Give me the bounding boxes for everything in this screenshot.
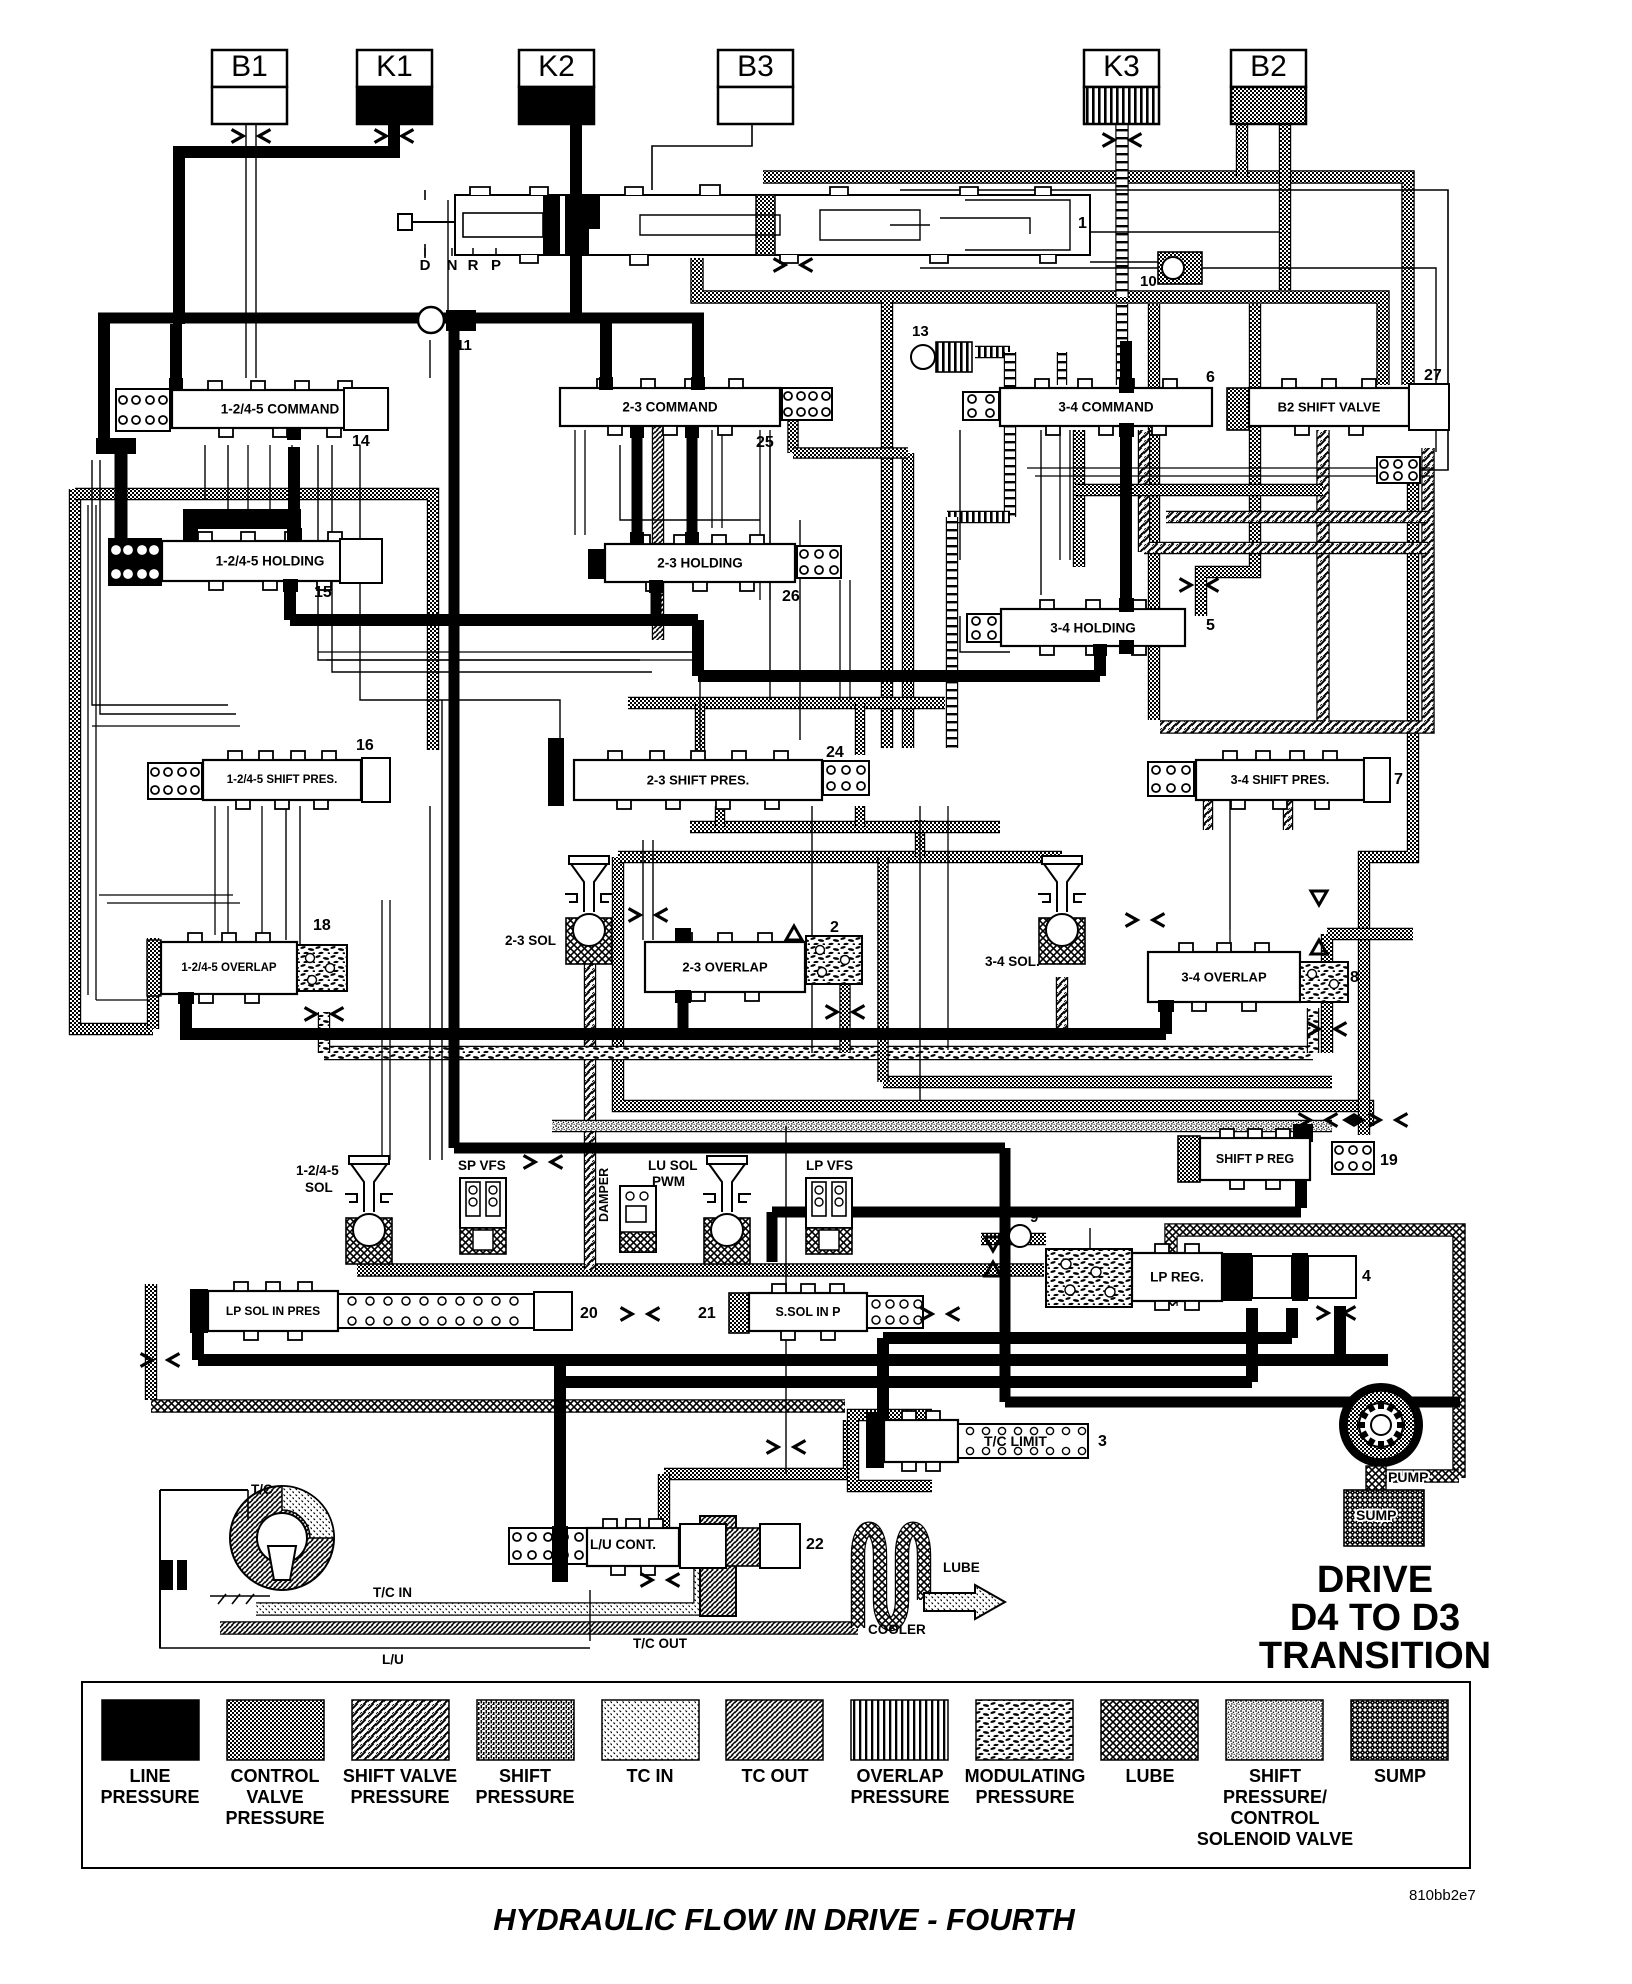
line: shift p reg top port block	[1293, 1124, 1313, 1142]
wire: drop above command	[429, 340, 431, 378]
line: left vertical to H1	[173, 152, 185, 324]
pipe: T/C limit enclosure	[853, 1415, 932, 1486]
pipe: overlap pipe from ball 13	[975, 346, 1010, 358]
port block: 3-4 holding bottom	[1093, 644, 1107, 656]
line: main center vertical	[449, 324, 460, 1148]
svg-text:3-4 SHIFT PRES.: 3-4 SHIFT PRES.	[1231, 773, 1330, 787]
line: bus3 to pump	[1005, 1397, 1460, 1408]
wire: drop to 2-3 overlap	[643, 840, 653, 940]
wire: sol drop A	[429, 806, 431, 1160]
valve 4 right sections	[1222, 1253, 1252, 1301]
wire: drop below shift pres b	[227, 806, 229, 950]
svg-text:26: 26	[782, 588, 800, 605]
svg-text:LP SOL IN PRES: LP SOL IN PRES	[226, 1304, 320, 1318]
line: bus y1338 riser to LP reg	[1286, 1308, 1298, 1338]
line: TH-A west segment	[290, 614, 698, 626]
one-way arrows near valve 9	[985, 1237, 1001, 1276]
pipe: riser y857 to y1082	[877, 857, 888, 1082]
wire: below 2-3 command A	[620, 445, 760, 520]
restrictor near valve 19 c	[1369, 1114, 1408, 1127]
port block: 3-4 command slug	[1119, 378, 1134, 393]
pipe: T/C out riser block at valve 22	[700, 1516, 736, 1616]
svg-text:B1: B1	[231, 50, 268, 83]
clutch B1 box	[212, 50, 287, 124]
line: drop to 1-2/4-5 holding spring box	[115, 452, 128, 545]
line: branch to 2-3 command top-left	[600, 318, 612, 388]
pipe: control riser 2-3 sol to band y1106	[618, 857, 1368, 1126]
svg-text:3-4 OVERLAP: 3-4 OVERLAP	[1181, 970, 1267, 985]
restrictor above 2-3 overlap	[629, 909, 668, 922]
valve 2 spring box (modulating)	[806, 936, 862, 984]
wire: command drop 1	[204, 445, 206, 500]
svg-text:PUMP: PUMP	[1388, 1469, 1428, 1485]
pipe: hatch riser below 2-3 command	[652, 425, 664, 640]
valve 22 spring box	[509, 1528, 587, 1564]
legend swatch line pressure	[100, 1700, 199, 1807]
line: cap under left drop	[96, 438, 136, 454]
svg-text:L/U CONT.: L/U CONT.	[590, 1537, 656, 1552]
svg-text:CONTROL: CONTROL	[1231, 1808, 1320, 1828]
svg-text:18: 18	[313, 917, 331, 934]
valve 21 orifice section	[867, 1296, 923, 1328]
clutch K1 box	[357, 50, 432, 124]
line: TH-A up to 3-4 holding	[1094, 646, 1106, 676]
svg-text:15: 15	[314, 584, 332, 601]
wire: B1 stem double line	[246, 124, 256, 378]
pipe: B2 shift valve right checker loop	[1323, 430, 1428, 727]
one-way arrow above 2-3 overlap spring	[786, 926, 802, 940]
svg-text:SHIFT: SHIFT	[499, 1766, 551, 1786]
valve 2 2-3 overlap	[645, 933, 805, 1001]
svg-text:K3: K3	[1103, 50, 1140, 83]
line: left drop to cap	[98, 318, 110, 441]
legend swatch lube	[1101, 1700, 1198, 1786]
wire: thin pair to 1-2/4-5 sol	[382, 900, 390, 1160]
line: K1 stem	[388, 124, 400, 158]
one-way arrows right of 3-4 overlap	[1311, 891, 1327, 954]
wire: shift pres to overlap A	[285, 800, 287, 940]
svg-text:10: 10	[1140, 273, 1157, 290]
restrictor above 3-4 overlap	[1126, 914, 1165, 927]
svg-text:SUMP: SUMP	[1356, 1507, 1396, 1523]
solenoid 2-3 SOL	[565, 856, 613, 964]
pipe: 2-3 command spring drain stub	[787, 420, 798, 453]
svg-text:PRESSURE: PRESSURE	[100, 1787, 199, 1807]
pipe: stub below 2-3 shift pres b	[855, 806, 865, 827]
pipe: control riser to 2-3 shift pres (right)	[902, 453, 914, 748]
legend swatch shift valve pressure	[343, 1700, 457, 1807]
line: west line drop to sol band	[767, 1212, 778, 1262]
wire: left branch y895	[99, 894, 233, 896]
line:none	[691, 320, 693, 388]
DRIVE D4 TO D3 TRANSITION heading	[1259, 1559, 1491, 1677]
svg-text:SUMP: SUMP	[1374, 1766, 1426, 1786]
pipe: pump enclosure bottom	[1380, 1469, 1459, 1482]
clutch K2 box	[519, 50, 594, 124]
legend swatch tc out	[726, 1700, 823, 1786]
line: LP reg right drop	[1334, 1306, 1346, 1362]
svg-text:1: 1	[1078, 215, 1087, 232]
restrictor below 2-3 overlap	[826, 1006, 865, 1019]
pipe: modulating band left riser	[318, 1012, 330, 1053]
svg-text:SHIFT VALVE: SHIFT VALVE	[343, 1766, 457, 1786]
svg-text:4: 4	[1362, 1268, 1371, 1285]
pump to sump link	[1366, 1466, 1386, 1492]
wire: command drop 2	[227, 445, 229, 520]
svg-text:PRESSURE: PRESSURE	[475, 1787, 574, 1807]
svg-text:SOL: SOL	[305, 1180, 333, 1195]
wire: below 2-3 shift pres	[811, 806, 813, 1053]
svg-text:2-3 HOLDING: 2-3 HOLDING	[657, 556, 743, 571]
legend swatch shift pressure	[475, 1700, 574, 1807]
restrictor at L/U cont	[641, 1574, 680, 1587]
svg-text:T/C IN: T/C IN	[373, 1585, 412, 1600]
svg-text:SP VFS: SP VFS	[458, 1158, 506, 1173]
valve 3 T/C LIMIT	[884, 1411, 958, 1471]
manual valve lever	[398, 190, 454, 258]
svg-text:3-4 SOL.: 3-4 SOL.	[985, 954, 1040, 969]
spring retainer right of B2 shift valve	[1377, 457, 1420, 483]
line: command bottom to holding bar	[288, 447, 300, 515]
svg-text:P: P	[491, 257, 501, 274]
pipe: 3-4 sol drain	[1056, 977, 1068, 1034]
pipe: overlap drop to 2-3 shift pres	[946, 517, 958, 748]
svg-text:2: 2	[830, 919, 839, 936]
solenoid 3-4 SOL	[1038, 856, 1086, 964]
valve 18 1-2/4-5 overlap	[147, 940, 161, 996]
manual selector valve 1	[455, 185, 1090, 265]
wire: left branch y726	[92, 725, 240, 727]
svg-text:L/U: L/U	[382, 1652, 404, 1667]
clutch B2 box	[1231, 50, 1306, 124]
wire: drop below shift pres a	[214, 806, 216, 935]
svg-text:810bb2e7: 810bb2e7	[1409, 1887, 1476, 1904]
line: TB1 right riser to 3-4 overlap	[1160, 1004, 1172, 1034]
svg-text:LP REG.: LP REG.	[1150, 1270, 1204, 1285]
svg-text:LU SOL: LU SOL	[648, 1158, 698, 1173]
svg-text:1-2/4-5 SHIFT PRES.: 1-2/4-5 SHIFT PRES.	[227, 774, 338, 786]
port block: K2 tee at manual valve	[565, 195, 589, 255]
svg-text:T/C LIMIT: T/C LIMIT	[984, 1433, 1047, 1449]
wire: thin drop from manual valve lever area	[447, 200, 449, 310]
line: drop to bus3	[1000, 1148, 1011, 1402]
svg-text:PRESSURE: PRESSURE	[225, 1808, 324, 1828]
wire: drops 2-3 command c	[760, 430, 770, 600]
wire: drops right of 2-3 holding	[840, 580, 850, 700]
pipe: stub to band y857	[915, 820, 925, 857]
legend swatch overlap pressure	[850, 1700, 949, 1807]
legend swatch modulating pressure	[965, 1700, 1086, 1807]
svg-text:PRESSURE: PRESSURE	[850, 1787, 949, 1807]
svg-text:VALVE: VALVE	[246, 1787, 303, 1807]
wire: left branch y903	[107, 902, 240, 904]
restrictor pair near valve 19 a	[1299, 1114, 1338, 1127]
wire: L/U up to valve	[589, 1590, 591, 1641]
wire: below 2-3 command B	[769, 445, 771, 700]
svg-text:20: 20	[580, 1305, 598, 1322]
wire: thin loop right of manual valve	[900, 190, 1448, 470]
line: drop to L/U control	[554, 1360, 566, 1545]
svg-text:9: 9	[1030, 1209, 1038, 1226]
pipe: left tall control loop	[75, 489, 153, 1029]
wire: below 2-3 shift pres B	[919, 806, 921, 1100]
line: shift p reg west line	[772, 1207, 1301, 1218]
pipe: overlap riser right of 3-4 command	[1004, 352, 1016, 517]
line: T/C limit cap riser	[877, 1338, 889, 1420]
svg-text:24: 24	[826, 744, 844, 761]
svg-text:3: 3	[1098, 1433, 1107, 1450]
pipe: L/U cont riser	[658, 1474, 670, 1540]
pipe: ball valve 9 channel	[981, 1233, 1046, 1245]
wire: sol drop B	[441, 700, 443, 1160]
line: bus y1360 to pump	[198, 1354, 1388, 1366]
valve 8 3-4 overlap	[1148, 943, 1300, 1011]
svg-text:1-2/4-5 HOLDING: 1-2/4-5 HOLDING	[216, 554, 325, 569]
wire: drop below 2-3 shift pres right	[947, 806, 949, 1050]
pipe: control riser band B to checker loop	[1148, 304, 1160, 720]
port block: 2-3 command top a	[599, 377, 613, 390]
svg-text:8: 8	[1350, 969, 1359, 986]
port block: 1-2/4-5 command top-left	[169, 378, 183, 391]
wire: drops 3-4 command	[1060, 430, 1070, 560]
restrictor at B1 stem	[232, 130, 271, 143]
wire: thin y468 right	[1027, 467, 1430, 469]
restrictor right of valve 21	[921, 1308, 960, 1321]
port block: 1-2/4-5 holding top a	[183, 528, 198, 542]
wire: command to 2-3 route B	[332, 445, 652, 672]
valve 20 orifice row	[338, 1294, 534, 1328]
label 11 junction	[418, 307, 476, 354]
line: 3-4 command through 3-4 holding	[1120, 341, 1132, 652]
wire: 24 drop	[799, 520, 801, 740]
pipe: control riser to 2-3 shift pres (left)	[881, 300, 893, 748]
pipe: checker band y550	[1144, 430, 1428, 552]
line: drop to 1-2/4-5 command left	[170, 324, 182, 390]
wire: none2	[163, 1641, 590, 1655]
pipe: LP sol left drop	[145, 1284, 157, 1400]
solenoid 1-2/4-5 SOL	[345, 1156, 393, 1264]
pipe: K3 riser to 3-4 command	[1116, 304, 1128, 385]
wire: left loop bottom inner	[96, 999, 150, 1001]
wire: manual valve to ball 10	[1090, 261, 1164, 263]
svg-text:LP VFS: LP VFS	[806, 1158, 853, 1173]
wire: drop below shift pres c	[261, 806, 263, 935]
restrictor below 3-4 overlap	[1308, 1023, 1347, 1036]
svg-text:SHIFT P REG: SHIFT P REG	[1216, 1152, 1294, 1166]
svg-text:S.SOL IN P: S.SOL IN P	[775, 1305, 840, 1319]
valve 5 3-4 holding	[967, 614, 1001, 642]
wire: command drop 4	[269, 445, 271, 515]
valve 20 LP SOL IN PRES	[190, 1289, 208, 1333]
wire: B3 stem	[652, 124, 752, 190]
clutch B3 box	[718, 50, 793, 124]
solenoid LP VFS	[806, 1178, 852, 1254]
wire: thin drop to valve 22 restrictor	[785, 1126, 787, 1474]
svg-text:2-3 COMMAND: 2-3 COMMAND	[622, 400, 718, 415]
wire: 3-4 shift pres to overlap	[1229, 930, 1231, 952]
torque converter T/C	[160, 1486, 334, 1648]
valve 24 spring box	[823, 761, 869, 795]
pipe: control band y857 to 3-4 sol	[618, 851, 1062, 863]
port block: 1-2/4-5 command bottom (to holding)	[287, 427, 301, 440]
pipe: stub below 3-4 shift pres a	[1203, 800, 1213, 830]
pipe: pump enclosure	[1171, 1230, 1459, 1478]
pipe: control band y490 right	[1075, 484, 1323, 496]
wire: thin route left A	[92, 460, 228, 705]
svg-text:D4 TO D3: D4 TO D3	[1290, 1597, 1460, 1639]
pipe: control-pressure band A from manual valve to B2 shift valve	[763, 177, 1408, 385]
wire: long loop y652	[318, 651, 700, 653]
pipe: elbow to risers	[793, 447, 908, 458]
valve 24 2-3 shift pres	[574, 751, 822, 809]
svg-text:COOLER: COOLER	[868, 1622, 926, 1637]
cooler serpentine	[858, 1529, 924, 1628]
svg-text:2-3 SOL: 2-3 SOL	[505, 933, 556, 948]
line: main bus H1 y318	[98, 313, 704, 324]
line: 2-3 shift pres left cap	[548, 738, 564, 806]
port block: 3-4 holding slug	[1119, 598, 1134, 612]
svg-text:TC IN: TC IN	[627, 1766, 674, 1786]
svg-text:R: R	[468, 257, 479, 274]
svg-text:OVERLAP: OVERLAP	[856, 1766, 943, 1786]
line: holding bottom to TH-A	[284, 580, 296, 620]
line: bus y1338	[883, 1332, 1292, 1344]
line: 2-3 overlap port to TB1	[678, 1003, 689, 1034]
line: K2 below manual valve	[570, 252, 582, 320]
pipe: 2-3 sol drain (checkered)	[584, 963, 596, 1270]
pipe: control band y1082	[883, 1076, 1332, 1088]
svg-text:6: 6	[1206, 369, 1215, 386]
valve 16 1-2/4-5 shift pres	[148, 763, 202, 799]
wire: below 3-4 shift pres	[1229, 800, 1231, 930]
svg-text:K2: K2	[538, 50, 575, 83]
svg-text:N: N	[447, 257, 458, 274]
svg-text:22: 22	[806, 1536, 824, 1553]
svg-text:B2 SHIFT VALVE: B2 SHIFT VALVE	[1278, 400, 1381, 415]
pump	[1339, 1383, 1423, 1467]
L/U control stem overlay	[552, 1526, 568, 1582]
restrictor above valve 22	[767, 1441, 806, 1454]
line: TH-A east segment	[698, 670, 1100, 682]
wire: none	[520, 905, 643, 952]
restrictor below LP reg	[1317, 1307, 1356, 1320]
valve 25 2-3 command	[560, 379, 780, 435]
svg-text:SHIFT: SHIFT	[1249, 1766, 1301, 1786]
wire: drops 2-3 command a	[575, 430, 585, 535]
svg-text:T/C: T/C	[251, 1482, 273, 1497]
line: bus y1382 right riser to LP reg	[1246, 1308, 1258, 1382]
restrictor at K1 stem	[375, 130, 414, 143]
line: K2 stem	[570, 124, 582, 200]
svg-text:SOLENOID VALVE: SOLENOID VALVE	[1197, 1829, 1353, 1849]
pipe: B2 right stem	[1279, 124, 1291, 290]
restrictor at 3-4 holding right pipe	[1180, 579, 1219, 592]
check ball 10	[1140, 252, 1202, 290]
svg-text:CONTROL: CONTROL	[231, 1766, 320, 1786]
svg-text:2-3 SHIFT PRES.: 2-3 SHIFT PRES.	[647, 773, 750, 788]
valve 14 right cap	[344, 388, 388, 430]
port block: 2-3 overlap bottom	[675, 990, 691, 1003]
svg-text:LINE: LINE	[129, 1766, 170, 1786]
restrictor under manual valve	[774, 259, 813, 272]
pipe: 1-2/4-5 overlap left cap column	[147, 938, 159, 1029]
damper	[620, 1186, 656, 1252]
svg-text:LUBE: LUBE	[1126, 1766, 1175, 1786]
port block: 1-2/4-5 holding bottom	[283, 579, 298, 592]
valve 7 3-4 shift pres	[1148, 762, 1194, 796]
pipe: 2-3 overlap right drain	[839, 983, 850, 1053]
svg-text:TC OUT: TC OUT	[742, 1766, 809, 1786]
wire: 3-4 holding left	[960, 616, 1010, 652]
wire: command to shift-pres route	[360, 445, 560, 757]
svg-text:B2: B2	[1250, 50, 1287, 83]
pipe: solenoid supply band	[357, 1263, 1044, 1276]
lube arrow	[924, 1585, 1005, 1619]
valve 27 B2 shift valve	[1227, 388, 1249, 430]
svg-text:21: 21	[698, 1305, 716, 1322]
pipe: overlap band y517	[947, 511, 1010, 523]
svg-text:1-2/4-5: 1-2/4-5	[296, 1163, 339, 1178]
valve 19 shift p reg	[1178, 1136, 1200, 1182]
valve 4 LP REG	[1046, 1249, 1132, 1307]
pipe: 3-4 overlap right pipe	[1327, 934, 1413, 1053]
svg-text:D: D	[420, 257, 431, 274]
svg-text:2-3 OVERLAP: 2-3 OVERLAP	[682, 960, 768, 975]
line: holding top bar	[183, 509, 301, 529]
svg-text:B3: B3	[737, 50, 774, 83]
svg-text:1-2/4-5 OVERLAP: 1-2/4-5 OVERLAP	[181, 962, 277, 974]
pipe: speckle band y1126	[552, 1120, 1332, 1132]
svg-text:LUBE: LUBE	[943, 1560, 980, 1575]
svg-text:19: 19	[1380, 1152, 1398, 1169]
wire: command drop 3	[247, 445, 249, 515]
wire: below 3-4 command B	[1040, 430, 1042, 595]
pipe: checker band y521	[1166, 511, 1428, 523]
valve 14 1-2/4-5 command	[116, 389, 170, 431]
restrictor pair near valve 19 b (diamond)	[1342, 1113, 1366, 1127]
port block: 2-3 holding top b	[685, 532, 699, 545]
valve 6 3-4 command	[963, 392, 999, 420]
gear letters D N R P	[420, 248, 501, 274]
pipe: B2 left stem	[1236, 124, 1248, 177]
pipe: stub below 2-3 shift pres a	[715, 806, 725, 827]
restrictor at SP VFS	[524, 1156, 563, 1169]
svg-text:DAMPER: DAMPER	[597, 1168, 611, 1222]
wire: command drop 5	[291, 445, 293, 500]
legend swatch shift pressure/control solenoid valve	[1197, 1700, 1353, 1849]
pipe: control riser 3-4 command to holding loop	[1073, 430, 1085, 567]
valve 15 1-2/4-5 holding	[109, 539, 161, 585]
pipe: T/C OUT	[220, 1621, 858, 1634]
svg-text:MODULATING: MODULATING	[965, 1766, 1086, 1786]
port block: 2-3 overlap top	[675, 928, 691, 942]
legend swatch sump	[1351, 1700, 1448, 1786]
pipe: checkered band y1406	[151, 1399, 845, 1412]
svg-text:7: 7	[1394, 771, 1403, 788]
pipe: checker band y727	[1160, 720, 1323, 733]
svg-text:K1: K1	[376, 50, 413, 83]
port block: 2-3 command top b	[691, 377, 705, 390]
pipe: riser 13 to 3-4 command	[1057, 352, 1067, 385]
line: bar to holding valve ports	[190, 529, 294, 545]
restrictor below 1-2/4-5 overlap	[305, 1008, 344, 1021]
line: branch y1148	[454, 1143, 1005, 1154]
port block: 2-3 command bottom b	[685, 425, 699, 438]
port block: 1-2/4-5 overlap bottom	[178, 992, 194, 1004]
line: bus y1382	[560, 1376, 1252, 1388]
line: TH-A step	[692, 620, 704, 676]
pipe: stub to 2-3 shift pres top b	[855, 703, 865, 755]
